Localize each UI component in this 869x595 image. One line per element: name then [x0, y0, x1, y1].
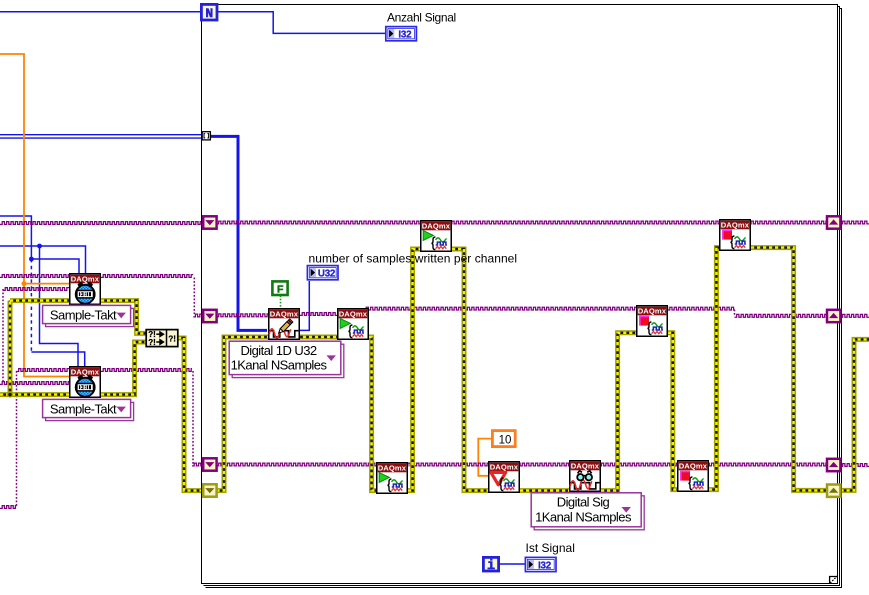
wire: task row 1 out of loop	[841, 221, 869, 224]
auto-index tunnel	[202, 132, 210, 140]
shift register SR4 left (error)	[203, 484, 216, 496]
error wire: left feed into both timing VIs and merge errors	[0, 301, 203, 491]
wire: blue scalar net upper (to timing VIs)	[0, 216, 31, 259]
wire: task into timing VI 1	[0, 275, 69, 278]
wire: 2D array into loop tunnel	[0, 134, 203, 136]
DAQmx Start VI (top)	[421, 221, 452, 252]
svg-text:Ist Signal: Ist Signal	[526, 541, 575, 555]
wire: task row 1 inside loop	[217, 221, 827, 224]
DAQmx Read VI	[570, 461, 601, 492]
DAQmx Write VI	[269, 309, 300, 340]
svg-text:Anzahl Signal: Anzahl Signal	[387, 10, 456, 24]
svg-text:N: N	[205, 6, 213, 21]
svg-text:Digital Sig: Digital Sig	[557, 495, 610, 510]
wire: task row 2 inside loop	[217, 314, 269, 317]
svg-text:U32: U32	[318, 269, 336, 280]
wire: task row 2 out of loop	[841, 314, 869, 317]
error wire: main chain inside loop	[217, 248, 827, 491]
ring constant Digital Sig / 1Kanal NSamples	[531, 493, 644, 530]
DAQmx Stop VI (bottom right)	[678, 461, 709, 492]
shift register SR1 left (task)	[203, 216, 216, 228]
svg-text:1Kanal NSamples: 1Kanal NSamples	[535, 509, 632, 524]
shift register SR3 left (task)	[203, 458, 216, 470]
DAQmx Stop VI (top right)	[720, 220, 751, 251]
wire: samples-written to U32 indicator	[300, 281, 309, 330]
svg-text:?!: ?!	[148, 338, 156, 347]
wire: timing VI 2 task out to SR3	[101, 369, 192, 372]
wire: task row 3 out of loop	[841, 464, 869, 467]
DAQmx Start VI (bottom)	[377, 463, 408, 494]
shift register SR2 right (task)	[827, 310, 840, 322]
wire: constant 10 to DAQmx trigger VI	[478, 439, 492, 476]
wire: timing VI 1 task out to SR2	[101, 275, 193, 278]
loop resize handle	[829, 575, 838, 583]
ring constant Sample-Takt (lower)	[43, 399, 134, 420]
wire: orange timeout/rate trunk	[0, 54, 69, 377]
shift register SR2 left (task)	[203, 310, 216, 322]
svg-text:Sample-Takt: Sample-Takt	[50, 401, 117, 416]
wire: N count from left edge	[0, 11, 201, 13]
for loop border echo 1	[204, 7, 840, 586]
shift register SR4 right (error)	[827, 485, 840, 497]
DAQmx Stop VI (middle right)	[637, 306, 668, 337]
svg-text:I32: I32	[398, 30, 412, 41]
wire: task into left shift register SR1	[0, 222, 203, 225]
svg-text:Sample-Takt: Sample-Takt	[50, 307, 117, 322]
svg-text:F: F	[277, 284, 284, 296]
svg-text:I32: I32	[538, 560, 552, 571]
Merge Errors VI	[146, 330, 178, 347]
DAQmx Trigger VI (red triangle)	[489, 462, 520, 493]
DAQmx Start VI (middle)	[338, 309, 369, 340]
wire: 1D array from tunnel to DAQmx Write	[211, 136, 268, 330]
indicator I32 Ist Signal	[525, 557, 556, 571]
indicator U32 samples written	[307, 266, 338, 280]
wire: F to DAQmx Write (green dotted)	[280, 296, 282, 309]
svg-text:?!: ?!	[168, 335, 176, 344]
for loop border echo 2	[206, 9, 842, 588]
wire: i terminal to Ist Signal indicator	[499, 563, 526, 565]
for loop border	[202, 5, 838, 584]
svg-text:1Kanal NSamples: 1Kanal NSamples	[231, 358, 328, 373]
svg-text:i: i	[487, 559, 495, 574]
svg-text:10: 10	[499, 434, 512, 446]
shift register SR3 right (task)	[827, 459, 840, 471]
wire: task row 3 inside loop	[217, 463, 827, 466]
svg-text:number of samples written per: number of samples written per channel	[309, 251, 518, 265]
ring constant Sample-Takt (upper)	[43, 305, 134, 326]
shift register SR1 right (task)	[827, 216, 840, 228]
loop iteration terminal i	[483, 557, 498, 574]
indicator I32 Anzahl Signal	[386, 27, 417, 41]
wire: task into timing VI 2	[17, 369, 70, 372]
wire: timebase into timing VI 1	[3, 288, 69, 291]
svg-text:Digital 1D U32: Digital 1D U32	[240, 343, 316, 358]
N count terminal	[201, 4, 217, 21]
boolean constant F	[272, 281, 287, 295]
ring constant Digital 1D U32 / 1Kanal NSamples	[229, 341, 344, 377]
wire: blue scalar net lower (to timing VIs)	[0, 246, 86, 273]
wire: N terminal to Anzahl Signal indicator	[217, 12, 385, 34]
DAQmx Timing VI (upper)	[70, 274, 101, 305]
error wire: out of loop at right	[841, 339, 869, 490]
error wire junction dot	[7, 392, 13, 398]
DAQmx Timing VI (lower)	[70, 367, 101, 398]
numeric constant 10	[492, 431, 515, 447]
